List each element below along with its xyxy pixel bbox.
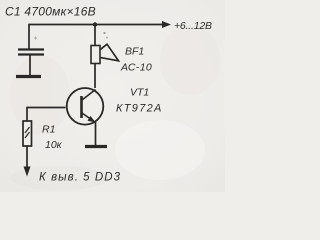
speaker BF1	[91, 25, 119, 89]
svg-text:C1 4700мк×16В: C1 4700мк×16В	[5, 5, 96, 19]
R1 hatch marks	[25, 127, 30, 138]
ground bar under emitter	[85, 145, 107, 148]
wire cap bottom lead	[29, 55, 31, 75]
ground bar under C1	[16, 75, 41, 78]
svg-text:КТ972А: КТ972А	[116, 103, 163, 115]
wire BF1 to collector	[94, 64, 96, 89]
wire emitter down	[95, 122, 97, 146]
BF1 horn	[101, 44, 119, 61]
faint polarity plus near C1	[34, 37, 37, 40]
svg-text:К выв. 5 DD3: К выв. 5 DD3	[39, 172, 121, 184]
svg-text:10к: 10к	[45, 139, 63, 151]
arrowhead +supply	[162, 21, 171, 28]
arrowhead to DD3	[24, 167, 31, 177]
svg-text:R1: R1	[42, 124, 55, 136]
R1 body	[23, 121, 32, 146]
wire from rail to BF1	[94, 25, 96, 46]
resistor R1	[23, 107, 32, 177]
VT1 circle	[67, 88, 104, 125]
svg-text:+6...12В: +6...12В	[174, 20, 212, 32]
svg-text:BF1: BF1	[125, 46, 144, 58]
VT1 emitter stroke	[82, 113, 96, 123]
VT1 emitter arrowhead	[88, 116, 96, 123]
wire top rail	[29, 24, 165, 26]
wire base to R1	[26, 107, 28, 121]
VT1 base bar	[80, 96, 83, 118]
capacitor C1	[16, 24, 44, 77]
capacitor C1 plates	[18, 48, 44, 50]
wire cap top lead	[28, 24, 30, 49]
transistor VT1	[27, 88, 107, 147]
wire base lead	[27, 107, 66, 109]
wire R1 down	[26, 146, 28, 169]
node junction dot	[93, 22, 97, 26]
VT1 collector stroke	[82, 90, 96, 101]
scan speck near BF1	[106, 37, 108, 39]
BF1 body rectangle	[91, 46, 100, 64]
svg-text:VT1: VT1	[130, 87, 149, 99]
scan speck near junction	[103, 32, 105, 34]
svg-text:АС-10: АС-10	[120, 62, 152, 74]
